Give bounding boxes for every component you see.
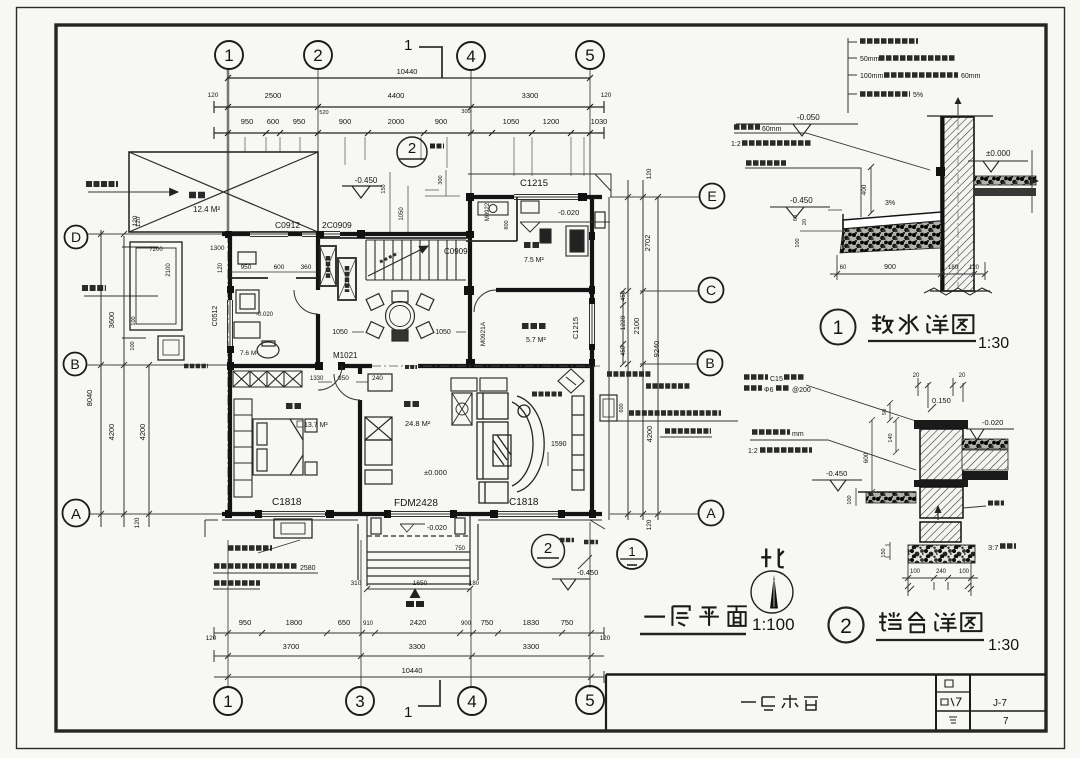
shaft labels vertical: [326, 256, 331, 278]
svg-text:13.7 M²: 13.7 M²: [304, 422, 328, 429]
interior thin partitions: [230, 238, 470, 300]
svg-text:2500: 2500: [265, 91, 282, 100]
svg-text:2420: 2420: [410, 618, 427, 627]
svg-text:4: 4: [467, 692, 476, 711]
window C1215 top: [514, 195, 582, 200]
svg-text:100mm: 100mm: [860, 73, 884, 80]
svg-text:4200: 4200: [645, 426, 654, 443]
window 2C0909: [302, 232, 340, 237]
svg-text:100: 100: [131, 316, 137, 325]
cold water well: [158, 336, 184, 360]
axis circle 5 top: [576, 41, 604, 69]
svg-text:100: 100: [910, 569, 921, 575]
svg-text:±0.000: ±0.000: [986, 149, 1011, 158]
svg-text:-0.450: -0.450: [790, 196, 813, 205]
axis line 3 vertical bottom: [360, 540, 362, 688]
bottom dims detail1: [830, 250, 988, 280]
axis circle 3 bottom: [346, 687, 374, 715]
svg-text:2: 2: [544, 540, 552, 557]
svg-text:@200: @200: [792, 387, 811, 394]
svg-text:1:30: 1:30: [988, 637, 1019, 654]
svg-text:3300: 3300: [522, 91, 539, 100]
dim line total 10440 top: [228, 77, 590, 79]
svg-text:750: 750: [455, 546, 466, 552]
svg-text:520: 520: [319, 110, 328, 116]
svg-text:100: 100: [959, 569, 970, 575]
axis circle D left: [65, 226, 88, 249]
svg-text:1:30: 1:30: [978, 335, 1009, 352]
axis circle 1 bottom: [214, 687, 242, 715]
svg-text:150: 150: [881, 548, 887, 557]
svg-text:120: 120: [135, 216, 142, 227]
svg-text:50mm: 50mm: [860, 56, 880, 63]
wardrobe bedroom: [234, 399, 252, 497]
svg-text:120: 120: [646, 168, 653, 179]
svg-text:24.8 M²: 24.8 M²: [405, 419, 431, 428]
right floor layers: [962, 439, 1008, 449]
C wall kitchen/storage: [496, 288, 592, 292]
svg-text:100: 100: [847, 495, 853, 504]
svg-text:1800: 1800: [286, 618, 303, 627]
svg-text:120: 120: [218, 262, 224, 273]
svg-text:2C0909: 2C0909: [322, 220, 352, 230]
svg-text:7.5 M²: 7.5 M²: [524, 257, 545, 264]
svg-text:650: 650: [338, 618, 351, 627]
window C1215 east: [590, 302, 595, 348]
svg-text:1200: 1200: [543, 117, 560, 126]
DPC band: [914, 480, 968, 487]
rain gutter annotation + arrow: [86, 181, 118, 187]
svg-text:1330: 1330: [310, 376, 324, 382]
title block: [606, 675, 1046, 730]
waterproof course leader: [746, 160, 786, 166]
svg-text:FDM2428: FDM2428: [394, 498, 438, 509]
svg-text:910: 910: [363, 621, 374, 627]
svg-text:C0912: C0912: [275, 220, 300, 230]
axis circle C right: [699, 278, 724, 303]
svg-text:120: 120: [208, 92, 219, 99]
svg-text:1:2: 1:2: [748, 448, 758, 455]
svg-text:Φ6: Φ6: [764, 387, 774, 394]
AC outdoor unit left: [274, 519, 312, 538]
svg-text:1050: 1050: [435, 329, 451, 336]
south wall A: [222, 512, 602, 516]
north wall D with window piers: [222, 232, 472, 236]
svg-text:120: 120: [969, 265, 980, 271]
svg-text:140: 140: [888, 433, 894, 442]
svg-text:240: 240: [372, 375, 383, 382]
bottom dims detail2: [902, 560, 978, 596]
svg-text:C15: C15: [770, 376, 783, 383]
svg-text:-0.450: -0.450: [355, 176, 378, 185]
svg-text:900: 900: [435, 117, 448, 126]
svg-text:-0.020: -0.020: [558, 208, 579, 217]
window C1818 right: [497, 512, 558, 517]
footing: [920, 522, 961, 542]
svg-text:1:100: 1:100: [752, 615, 795, 634]
column blocks: [225, 193, 596, 518]
svg-text:4: 4: [466, 47, 475, 66]
svg-text:450: 450: [621, 290, 627, 301]
svg-text:4200: 4200: [138, 424, 147, 441]
svg-text:8040: 8040: [85, 390, 94, 407]
svg-text:7: 7: [1003, 716, 1009, 727]
entrance arrow 入口: [410, 588, 421, 598]
svg-text:-0.020: -0.020: [982, 418, 1003, 427]
svg-text:950: 950: [338, 375, 349, 382]
axis circle 2 top: [304, 41, 332, 69]
svg-text:1220: 1220: [620, 315, 627, 330]
axis circle E right: [700, 184, 725, 209]
terrace label 露台 12.4㎡: [189, 192, 206, 199]
east wall niche strip: [572, 396, 584, 490]
svg-text:-0.450: -0.450: [826, 469, 847, 478]
axis circle B left: [64, 353, 87, 376]
svg-text:750: 750: [561, 618, 574, 627]
svg-text:950: 950: [239, 618, 252, 627]
lower wall: [920, 487, 963, 518]
svg-text:M0921A: M0921A: [480, 321, 487, 346]
door storage room: [474, 290, 496, 312]
svg-text:950: 950: [293, 117, 306, 126]
svg-text:50: 50: [882, 409, 888, 415]
svg-text:C0512: C0512: [212, 306, 219, 327]
leader texts top: [744, 374, 768, 380]
stair dash label: [380, 253, 398, 262]
svg-text:3: 3: [355, 692, 364, 711]
svg-text:12.4 M²: 12.4 M²: [193, 205, 220, 214]
TV cabinets on bedroom wall: [365, 374, 392, 484]
svg-text:800: 800: [504, 220, 510, 229]
bath east wall: [316, 232, 320, 368]
svg-text:900: 900: [461, 621, 472, 627]
svg-text:180: 180: [948, 265, 959, 271]
bed: [253, 419, 317, 475]
svg-text:1590: 1590: [551, 441, 567, 448]
svg-text:600: 600: [863, 452, 870, 463]
svg-text:C: C: [706, 282, 716, 298]
svg-text:950: 950: [241, 264, 252, 271]
svg-text:900: 900: [884, 264, 896, 271]
svg-text:A: A: [71, 506, 81, 523]
left ground: [866, 492, 916, 503]
fireplace/tv: [452, 393, 472, 425]
svg-text:C1215: C1215: [520, 178, 548, 189]
svg-text:450: 450: [621, 345, 627, 356]
svg-text:20: 20: [913, 373, 920, 379]
svg-text:1: 1: [404, 37, 412, 54]
svg-text:1650: 1650: [413, 580, 428, 587]
svg-text:1: 1: [628, 544, 635, 559]
windows: [228, 195, 595, 517]
axis line 5 vertical: [589, 69, 591, 200]
svg-text:5.7 M²: 5.7 M²: [526, 337, 547, 344]
svg-text:D: D: [71, 229, 81, 245]
svg-text:5: 5: [585, 46, 594, 65]
east outside vent box: [595, 212, 605, 228]
AC outdoor unit east: [600, 395, 617, 421]
svg-text:100: 100: [795, 238, 801, 247]
svg-text:1030: 1030: [591, 117, 608, 126]
svg-text:1: 1: [833, 318, 844, 339]
apron leader texts: [734, 124, 760, 130]
svg-text:20: 20: [959, 373, 966, 379]
svg-text:2: 2: [408, 140, 416, 157]
svg-text:±0.000: ±0.000: [424, 468, 447, 477]
terrace X deck: [129, 152, 318, 232]
400 dim: [870, 167, 872, 213]
svg-text:C0909: C0909: [444, 247, 468, 256]
dim line sub top: [214, 132, 604, 134]
svg-text:2000: 2000: [388, 117, 405, 126]
door M0921A bedroom: [334, 374, 360, 400]
axis line 2 vertical: [317, 69, 319, 236]
svg-text:1300: 1300: [210, 245, 225, 252]
retaining wall cap: [914, 420, 968, 429]
kitchen west wall: [468, 195, 472, 368]
svg-text:3300: 3300: [409, 642, 426, 651]
svg-text:600: 600: [274, 264, 285, 271]
svg-text:B: B: [70, 356, 79, 372]
eave outline top right: [205, 174, 611, 537]
svg-text:9240: 9240: [652, 341, 661, 358]
svg-text:300: 300: [438, 175, 444, 184]
svg-text:120: 120: [646, 519, 653, 530]
bedroom/living wall: [358, 368, 362, 514]
svg-text:120: 120: [206, 635, 217, 642]
svg-text:-0.050: -0.050: [797, 113, 820, 122]
west wall: [228, 232, 232, 516]
svg-text:4400: 4400: [388, 91, 405, 100]
porch / entry steps: [358, 516, 478, 586]
bath door arc: [294, 290, 318, 314]
detail 1 title: [821, 310, 856, 345]
svg-text:1050: 1050: [399, 207, 405, 221]
svg-text:-0.020: -0.020: [427, 525, 447, 532]
svg-text:1: 1: [223, 692, 232, 711]
B wall: [230, 364, 592, 368]
svg-text:950: 950: [241, 117, 254, 126]
svg-text:A: A: [706, 505, 716, 521]
svg-text:2702: 2702: [643, 235, 652, 252]
svg-text:1050: 1050: [503, 117, 520, 126]
svg-text:900: 900: [339, 117, 352, 126]
svg-text:120: 120: [600, 635, 611, 642]
svg-text:20: 20: [802, 219, 808, 225]
axis line 1 vertical: [227, 69, 230, 520]
apron slab: [843, 212, 941, 229]
svg-text:4200: 4200: [107, 424, 116, 441]
axis circle B right: [698, 351, 723, 376]
svg-text:B: B: [705, 355, 714, 371]
dining table: [366, 291, 434, 341]
soil label right: [988, 501, 1004, 506]
kitchen counter: [466, 197, 588, 256]
door-window FDM2428: [390, 512, 450, 517]
flue shafts X: [320, 246, 336, 286]
svg-text:1830: 1830: [523, 618, 540, 627]
axis circle 4 top: [457, 42, 485, 70]
axis circle 4 bottom: [458, 687, 486, 715]
AC labels right of B: [607, 371, 651, 377]
svg-text:7200: 7200: [149, 247, 163, 253]
svg-text:3700: 3700: [283, 642, 300, 651]
kitchen labels: [524, 242, 541, 248]
section bubble 2 bottom: [532, 535, 565, 568]
title block text 一层平面: [741, 695, 818, 710]
svg-text:150: 150: [381, 184, 387, 193]
east wall: [590, 195, 594, 516]
svg-text:120: 120: [601, 92, 612, 99]
sofa group: [477, 393, 544, 503]
door M1021 hall->bedroom: [318, 366, 342, 390]
corner brace: [558, 369, 584, 393]
planter bed left: [122, 242, 182, 338]
svg-text:600: 600: [267, 117, 280, 126]
axis circle A left: [63, 500, 90, 527]
svg-text:5: 5: [585, 691, 594, 710]
vertical dims: [869, 400, 899, 495]
svg-text:C1818: C1818: [272, 497, 302, 508]
svg-text:60: 60: [840, 265, 847, 271]
title block small cells: [941, 680, 961, 723]
axis line 4 vertical: [470, 69, 472, 200]
detail 2 title: [829, 608, 864, 643]
stairs: [366, 240, 466, 280]
svg-text:J-7: J-7: [993, 698, 1007, 709]
window C0512 west: [228, 300, 233, 350]
svg-text:5%: 5%: [913, 92, 923, 99]
svg-text:C1215: C1215: [571, 317, 580, 339]
living room label 客厅 24.8㎡: [404, 401, 420, 407]
svg-text:3600: 3600: [107, 312, 116, 329]
window C1818 left: [262, 512, 325, 517]
axis circle 5 bottom: [576, 686, 604, 714]
svg-text:1: 1: [224, 46, 233, 65]
svg-text:2: 2: [313, 46, 322, 65]
svg-text:360: 360: [301, 264, 312, 271]
svg-text:7.6 M²: 7.6 M²: [240, 350, 259, 357]
svg-text:60mm: 60mm: [762, 126, 782, 133]
svg-text:E: E: [707, 188, 716, 204]
leader stack top: [848, 38, 857, 113]
svg-text:0.150: 0.150: [932, 396, 951, 405]
axis circle A right: [699, 501, 724, 526]
storage room labels: [522, 323, 546, 329]
axis circle 1 top: [215, 41, 243, 69]
svg-text:100: 100: [130, 341, 136, 350]
svg-text:-0.020: -0.020: [256, 312, 274, 318]
dash-dot B axis through living: [372, 365, 600, 367]
dim line axis spacing top: [214, 106, 604, 108]
svg-text:400: 400: [861, 184, 868, 195]
svg-text:M1021: M1021: [333, 351, 358, 360]
svg-text:10440: 10440: [397, 67, 418, 76]
svg-text:240: 240: [936, 569, 947, 575]
svg-text:3%: 3%: [885, 200, 895, 207]
svg-text:1050: 1050: [332, 329, 348, 336]
svg-text:120: 120: [134, 517, 141, 528]
bedroom label 卧室 13.7㎡: [286, 403, 301, 409]
small left dims: [800, 210, 842, 231]
svg-text:2100: 2100: [632, 318, 641, 335]
kitchen north wall E: [468, 195, 602, 199]
AC leader texts: [258, 540, 300, 553]
svg-text:mm: mm: [792, 431, 804, 438]
svg-text:300: 300: [461, 109, 470, 115]
svg-text:180: 180: [469, 581, 480, 587]
svg-text:600: 600: [619, 403, 625, 412]
svg-text:-0.450: -0.450: [577, 568, 598, 577]
svg-text:3300: 3300: [523, 642, 540, 651]
wall section hatched: [941, 117, 974, 291]
svg-text:60mm: 60mm: [961, 73, 981, 80]
svg-text:1: 1: [404, 704, 412, 721]
svg-text:2580: 2580: [300, 565, 316, 572]
svg-text:C1818: C1818: [509, 497, 539, 508]
wall bottom break: [924, 288, 992, 295]
svg-text:750: 750: [481, 618, 494, 627]
dim extension verticals top: [245, 137, 584, 176]
porch bottom dims: [367, 588, 470, 590]
svg-text:2100: 2100: [166, 263, 172, 277]
bay window X boxes below B wall: [233, 371, 302, 387]
upper wall: [920, 429, 963, 480]
bath fixtures: [234, 252, 279, 358]
section bubble 1 bottom right: [617, 539, 647, 569]
svg-text:310: 310: [351, 580, 362, 587]
svg-text:1:2: 1:2: [731, 141, 741, 148]
left leader texts: [752, 429, 790, 435]
cabinets on B wall living: [451, 378, 477, 391]
detail bubble 2 reference top: [397, 137, 427, 167]
gravel bed: [908, 545, 975, 563]
window C0912: [250, 232, 288, 237]
svg-text:2: 2: [840, 615, 852, 638]
svg-text:10440: 10440: [402, 666, 423, 675]
svg-text:3:7: 3:7: [988, 543, 998, 552]
20 20 dims: [915, 378, 966, 408]
